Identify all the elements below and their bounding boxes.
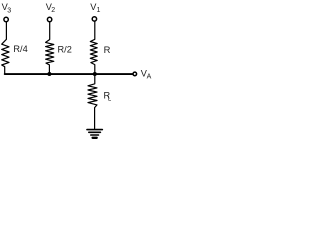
svg-text:1: 1 [97,7,101,14]
svg-text:R/4: R/4 [13,44,27,54]
svg-text:R/2: R/2 [58,45,72,55]
svg-text:2: 2 [51,7,55,14]
svg-text:3: 3 [7,8,11,15]
svg-text:A: A [147,74,152,81]
svg-text:R: R [104,44,111,55]
